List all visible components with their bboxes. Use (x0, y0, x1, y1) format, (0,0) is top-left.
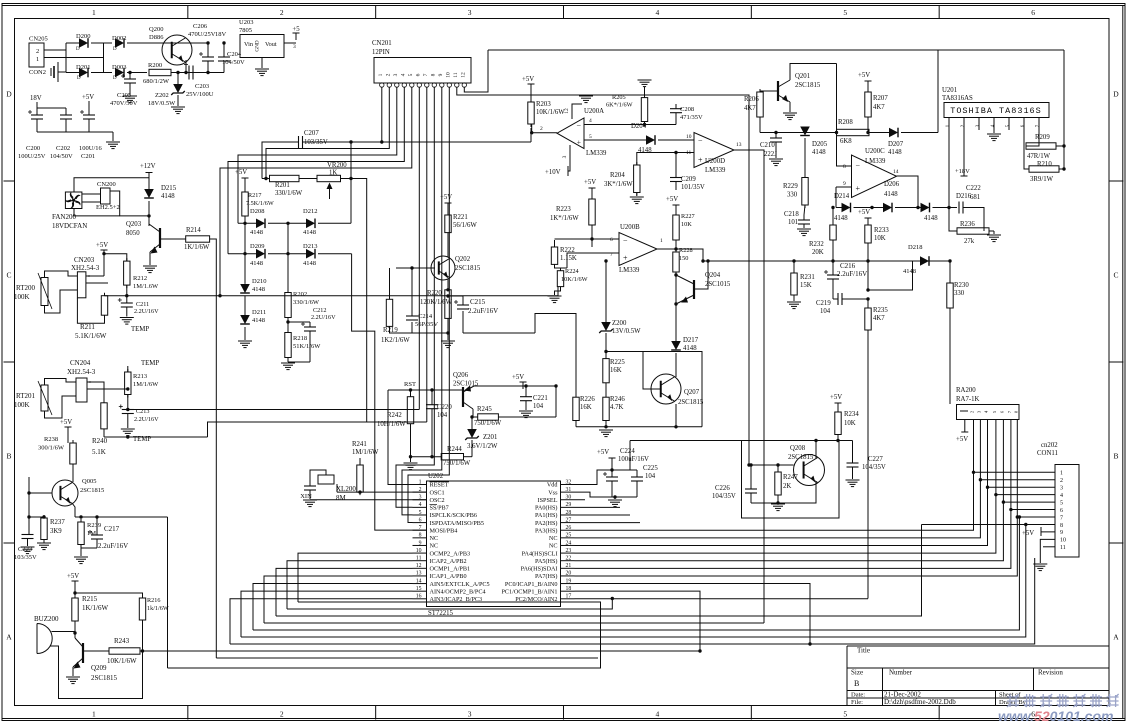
diode D208 (256, 219, 265, 229)
wire (29, 516, 44, 518)
wire (789, 102, 791, 112)
svg-text:R211: R211 (80, 323, 95, 331)
svg-text:4148: 4148 (903, 268, 916, 275)
wire U200B out (657, 249, 703, 261)
svg-text:OCMP1_A/PB1: OCMP1_A/PB1 (430, 566, 471, 573)
svg-text:PC1/OCMP1_B/AIN1: PC1/OCMP1_B/AIN1 (501, 588, 557, 595)
svg-text:3.6V/1/2W: 3.6V/1/2W (467, 443, 498, 450)
svg-text:Number: Number (889, 669, 913, 677)
wire (867, 243, 869, 290)
svg-text:51K/1/6W: 51K/1/6W (293, 343, 321, 350)
wire matrix col (244, 223, 246, 283)
svg-text:4148: 4148 (812, 149, 826, 156)
svg-text:B: B (854, 679, 859, 688)
resistor R213 (127, 369, 129, 372)
wire TEMP net (105, 295, 127, 297)
svg-text:Q201: Q201 (795, 73, 810, 80)
svg-text:4K7: 4K7 (873, 315, 885, 322)
wire TEMP2 row (104, 436, 208, 438)
svg-text:C210: C210 (760, 142, 775, 149)
svg-text:1M/1/6W: 1M/1/6W (352, 449, 379, 456)
svg-text:D213: D213 (303, 243, 317, 250)
svg-text:4K7: 4K7 (873, 104, 885, 111)
wire (554, 240, 556, 247)
node (831, 206, 834, 209)
svg-text:750/1/6W: 750/1/6W (443, 460, 471, 467)
ground (441, 340, 455, 342)
node (126, 435, 129, 438)
svg-text:A: A (6, 633, 12, 642)
node (866, 259, 869, 262)
wire base Q204 (694, 261, 708, 289)
wire (815, 441, 817, 459)
node (530, 131, 533, 134)
svg-text:Size: Size (851, 669, 863, 677)
wire (803, 215, 805, 220)
svg-text:4: 4 (1060, 493, 1063, 499)
svg-text:R216: R216 (147, 597, 160, 604)
wire in+ U200D (676, 152, 694, 154)
resistor R229 (804, 175, 806, 178)
svg-text:R220: R220 (427, 290, 442, 297)
wire collector (473, 409, 478, 417)
connector cn202 CON11 (1055, 465, 1079, 558)
resistor R208 (837, 129, 870, 135)
resistor R240 (103, 400, 105, 403)
node (698, 649, 701, 652)
diode D203 (115, 68, 124, 78)
wire CN201 pin6 (418, 87, 420, 409)
svg-text:File:: File: (851, 699, 863, 706)
wire row4 (584, 124, 676, 126)
svg-text:R218: R218 (293, 335, 307, 342)
svg-text:+5V: +5V (584, 179, 596, 186)
node (1018, 515, 1021, 518)
svg-text:C211: C211 (136, 301, 149, 308)
svg-text:5: 5 (1060, 500, 1063, 506)
wire (675, 353, 677, 374)
wire (836, 64, 838, 133)
wire base (29, 492, 52, 494)
wire U201 pin7 (1026, 130, 1039, 146)
svg-text:R212: R212 (133, 275, 147, 282)
svg-text:D: D (6, 90, 12, 99)
wire (66, 42, 79, 44)
wire U201 pin6 (1024, 130, 1029, 169)
svg-text:+5V: +5V (60, 419, 72, 426)
svg-text:SS/PB7: SS/PB7 (430, 505, 449, 512)
svg-text:R206: R206 (744, 96, 759, 103)
wire (186, 72, 224, 74)
svg-text:300/1/6W: 300/1/6W (38, 445, 65, 452)
svg-text:30: 30 (566, 495, 572, 501)
svg-text:101: 101 (788, 219, 798, 226)
diode D211 (240, 315, 250, 324)
svg-text:R204: R204 (610, 172, 625, 179)
resistor R215 (74, 595, 76, 598)
svg-text:3: 3 (1060, 486, 1063, 492)
wire CN201 pin1 (305, 87, 382, 142)
wire gnd row (575, 421, 577, 427)
wire (75, 593, 143, 598)
diode D216 (921, 203, 930, 213)
svg-text:R203: R203 (536, 101, 551, 108)
node (42, 515, 45, 518)
wire OSC1 (337, 491, 427, 493)
wire (605, 383, 607, 397)
svg-text:7: 7 (423, 73, 429, 76)
node (947, 206, 950, 209)
svg-text:R222: R222 (560, 247, 575, 254)
svg-text:4148: 4148 (888, 149, 902, 156)
svg-text:4: 4 (589, 118, 592, 124)
svg-text:8: 8 (1060, 523, 1063, 529)
wire PA2 (575, 522, 641, 524)
svg-text:Q208: Q208 (790, 445, 806, 452)
svg-text:8M: 8M (336, 494, 347, 502)
resistor R222 (554, 244, 556, 247)
wire RT201 loop (45, 379, 77, 386)
svg-text:+: + (698, 155, 703, 164)
wire (751, 502, 778, 504)
svg-text:15: 15 (416, 586, 422, 592)
node (776, 463, 779, 466)
capacitor C215 (462, 311, 464, 333)
capacitor C211 (121, 302, 133, 304)
ground (74, 556, 88, 558)
svg-text:C217: C217 (104, 525, 120, 533)
diode D213 (306, 249, 315, 259)
svg-text:25V/100U: 25V/100U (186, 91, 214, 98)
svg-text:16K: 16K (580, 404, 592, 411)
node (604, 350, 607, 353)
wire (411, 268, 413, 310)
svg-text:C: C (6, 271, 11, 280)
svg-text:150: 150 (679, 255, 688, 262)
node (446, 331, 449, 334)
wire (83, 650, 109, 652)
svg-text:RA7-1K: RA7-1K (956, 396, 980, 403)
wire Q208 top net (630, 440, 853, 442)
wire CN201 pin11 (457, 87, 749, 465)
wire Vss (575, 492, 613, 497)
wire R240 bottom (103, 429, 105, 437)
svg-text:C207: C207 (304, 130, 319, 137)
svg-text:3: 3 (419, 495, 422, 501)
svg-text:104: 104 (437, 412, 448, 419)
connector CN203 (77, 272, 86, 298)
svg-text:6: 6 (610, 237, 613, 243)
svg-text:3: 3 (562, 155, 568, 158)
svg-text:+5V: +5V (440, 194, 452, 201)
capacitor C220 (431, 390, 433, 405)
svg-text:R221: R221 (453, 214, 468, 221)
node (674, 273, 677, 276)
svg-text:4148: 4148 (303, 229, 316, 236)
wire (531, 124, 533, 133)
wire (464, 456, 473, 458)
node (1062, 167, 1065, 170)
svg-text:10K: 10K (874, 235, 886, 242)
svg-text:18V/0.5W: 18V/0.5W (148, 100, 176, 107)
resistor R242 (410, 394, 412, 397)
svg-text:D: D (113, 76, 117, 81)
wire pin17 (575, 598, 869, 600)
svg-text:4: 4 (656, 8, 660, 17)
svg-text:56/1/6W: 56/1/6W (453, 222, 477, 229)
svg-text:www.520101.com: www.520101.com (998, 708, 1113, 724)
svg-text:104: 104 (820, 308, 831, 315)
capacitor C227 (852, 441, 854, 464)
wire in- (836, 165, 852, 167)
svg-text:1M: 1M (87, 530, 96, 537)
svg-text:2SC1815: 2SC1815 (91, 674, 118, 682)
svg-text:R207: R207 (873, 95, 888, 102)
wire (447, 318, 449, 333)
svg-text:C: C (1113, 271, 1118, 280)
diode D202 (115, 38, 124, 48)
resistor R233 (867, 222, 869, 225)
capacitor C216 (832, 261, 834, 275)
node (613, 495, 616, 498)
ground (548, 295, 562, 297)
svg-text:D212: D212 (303, 208, 317, 215)
resistor R230 (949, 280, 951, 283)
svg-text:R226: R226 (580, 396, 595, 403)
wire (832, 295, 834, 299)
svg-text:4148: 4148 (683, 345, 697, 352)
watermark (1007, 694, 1119, 707)
node (349, 140, 352, 143)
svg-text:5: 5 (843, 710, 847, 719)
wire (66, 72, 79, 74)
resistor R238 (72, 440, 74, 443)
svg-text:2: 2 (280, 8, 284, 17)
svg-text:R238: R238 (44, 436, 58, 443)
svg-text:Q204: Q204 (705, 272, 721, 279)
svg-text:1: 1 (1060, 471, 1063, 477)
wire (262, 142, 299, 179)
wire emitter (72, 503, 75, 517)
svg-text:Vdd: Vdd (547, 482, 559, 489)
wire R235 col down (867, 330, 869, 599)
svg-text:2SC1815: 2SC1815 (678, 399, 704, 406)
resistor R247 (777, 465, 779, 472)
resistor R236 (957, 228, 989, 234)
wire (557, 287, 559, 296)
svg-text:25: 25 (566, 533, 572, 539)
transistor Q208 2SC1815 (794, 455, 825, 486)
wire box (643, 352, 702, 427)
wire PB bus pin11 (287, 561, 413, 609)
svg-text:EH2.5+2: EH2.5+2 (96, 204, 120, 211)
svg-text:680/1/2W: 680/1/2W (143, 78, 170, 85)
svg-text:D:\dzh\psdfme-2002.Ddb: D:\dzh\psdfme-2002.Ddb (884, 698, 956, 706)
wire (793, 261, 795, 273)
node (1062, 144, 1065, 147)
svg-text:4: 4 (400, 73, 406, 76)
svg-text:D: D (1113, 90, 1119, 99)
box Q208 (742, 441, 840, 519)
diode D206 (883, 203, 892, 213)
resistor R207 (867, 88, 869, 92)
svg-text:31: 31 (566, 487, 572, 493)
svg-text:4148: 4148 (250, 229, 263, 236)
svg-text:R213: R213 (133, 373, 147, 380)
svg-text:1K: 1K (329, 170, 337, 177)
wire (103, 43, 105, 73)
node (286, 252, 289, 255)
svg-text:21: 21 (566, 563, 572, 569)
svg-text:20: 20 (566, 571, 572, 577)
svg-text:C222: C222 (966, 185, 981, 192)
svg-text:47R/1W: 47R/1W (1027, 153, 1051, 160)
power +5 (293, 32, 300, 34)
svg-text:C220: C220 (437, 404, 452, 411)
transistor Q202 2SC1815 (431, 256, 455, 280)
wire (837, 435, 839, 441)
svg-text:R247: R247 (783, 474, 798, 481)
wire (389, 268, 391, 299)
resistor R200 (149, 69, 171, 75)
svg-text:D: D (76, 47, 80, 52)
resistor R202 (287, 290, 289, 293)
svg-text:1: 1 (36, 56, 39, 63)
wire PA net pin21 (575, 510, 1056, 569)
svg-text:+: + (577, 138, 581, 147)
node (948, 259, 951, 262)
wire out (897, 176, 919, 208)
svg-text:13V/0.5W: 13V/0.5W (612, 328, 641, 335)
ground (21, 546, 35, 548)
wire PB bus pin10 (298, 553, 413, 602)
wire (142, 620, 144, 651)
svg-text:LM339: LM339 (865, 158, 886, 165)
svg-text:2SC1015: 2SC1015 (705, 281, 731, 288)
wire (388, 390, 427, 485)
wire (963, 208, 984, 232)
svg-text:BUZ200: BUZ200 (34, 615, 59, 623)
svg-text:5: 5 (589, 134, 592, 140)
capacitor C217 (96, 517, 98, 535)
node (470, 415, 473, 418)
wire pin12 gnd (572, 104, 582, 119)
wire (854, 207, 884, 209)
wire fan loop (74, 178, 149, 192)
IC U201 TA8316AS (944, 103, 1049, 118)
resistor R210 (1029, 166, 1059, 172)
svg-text:6: 6 (1031, 8, 1035, 17)
svg-text:TOSHIBA TA8316S: TOSHIBA TA8316S (950, 106, 1042, 116)
capacitor C224 (606, 476, 618, 478)
wire (82, 193, 101, 195)
svg-text:1K2/1/6W: 1K2/1/6W (381, 337, 410, 344)
svg-text:15K: 15K (800, 282, 812, 289)
ground (783, 112, 797, 114)
resistor R209 (1026, 143, 1056, 149)
svg-text:R234: R234 (844, 411, 859, 418)
svg-text:470U/25V: 470U/25V (188, 31, 216, 38)
wire (612, 469, 637, 471)
resistor R212 (126, 258, 128, 261)
svg-text:PA3(HS): PA3(HS) (535, 527, 557, 534)
svg-text:PA1(HS): PA1(HS) (535, 512, 557, 519)
diode D212 (306, 219, 315, 229)
wire RA200 pin (995, 420, 997, 495)
ground C210 (775, 142, 777, 158)
wire (110, 191, 149, 216)
svg-text:2.2uF/16V: 2.2uF/16V (98, 542, 128, 550)
wire RA200 pin (973, 420, 975, 473)
transistor Q207 2SC1815 (651, 374, 681, 404)
svg-text:750/1/6W: 750/1/6W (474, 420, 502, 427)
wire (352, 254, 427, 530)
resistor R244 (441, 454, 463, 460)
svg-text:16: 16 (416, 594, 422, 600)
resistor R243 (109, 648, 140, 654)
wire emitter (149, 252, 151, 265)
transistor Q204 2SC1015 (693, 280, 695, 299)
wire (949, 208, 957, 232)
svg-text:R223: R223 (556, 206, 571, 213)
svg-text:Q202: Q202 (455, 256, 471, 263)
wire CN201 pin3 (238, 87, 397, 223)
svg-text:ISPDATA/MISO/PB5: ISPDATA/MISO/PB5 (430, 520, 485, 527)
svg-text:U201: U201 (942, 87, 957, 94)
resistor R206 (759, 89, 761, 92)
svg-text:−: − (856, 162, 861, 171)
wire (759, 91, 761, 92)
node (835, 131, 838, 134)
wire base (751, 464, 794, 466)
ground (255, 68, 269, 70)
wire (112, 132, 114, 141)
svg-text:B: B (6, 452, 11, 461)
node (674, 151, 677, 154)
svg-text:NC: NC (549, 543, 558, 550)
resistor R241 (359, 462, 361, 465)
svg-text:°: ° (88, 276, 90, 281)
svg-text:LM339: LM339 (705, 167, 726, 174)
wire (127, 42, 162, 44)
svg-text:32: 32 (566, 479, 572, 485)
svg-text:CON11: CON11 (1037, 450, 1058, 457)
wire (448, 295, 463, 297)
wire (675, 240, 677, 249)
svg-text:+18V: +18V (955, 168, 970, 175)
svg-text:13: 13 (416, 571, 422, 577)
node (446, 294, 449, 297)
svg-text:104/50V: 104/50V (50, 153, 73, 160)
wire (555, 287, 561, 295)
svg-text:471/35V: 471/35V (680, 114, 703, 121)
svg-text:R231: R231 (800, 274, 815, 281)
svg-text:Z200: Z200 (612, 320, 627, 327)
svg-text:2: 2 (540, 126, 543, 132)
ground (846, 479, 860, 481)
svg-text:2: 2 (280, 710, 284, 719)
wire RA200 pin (979, 420, 981, 480)
svg-text:+5V: +5V (82, 94, 94, 101)
wire (52, 631, 76, 633)
wire (949, 308, 951, 404)
wire (612, 496, 637, 498)
svg-text:Vout: Vout (265, 41, 277, 48)
transistor Q201 2SC1815 (777, 81, 779, 101)
svg-text:D200: D200 (76, 33, 90, 40)
svg-text:3R9/1W: 3R9/1W (1030, 176, 1054, 183)
resistor R245 (478, 414, 499, 420)
